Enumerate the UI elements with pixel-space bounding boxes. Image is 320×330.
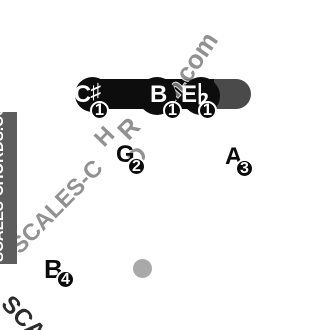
svg-text:SCALES-CHORDS.com: SCALES-CHORDS.com <box>0 290 202 330</box>
svg-text:SCALES-C: SCALES-C <box>5 155 108 259</box>
svg-text:SCALES-CHORDS.CO: SCALES-CHORDS.CO <box>0 112 7 262</box>
